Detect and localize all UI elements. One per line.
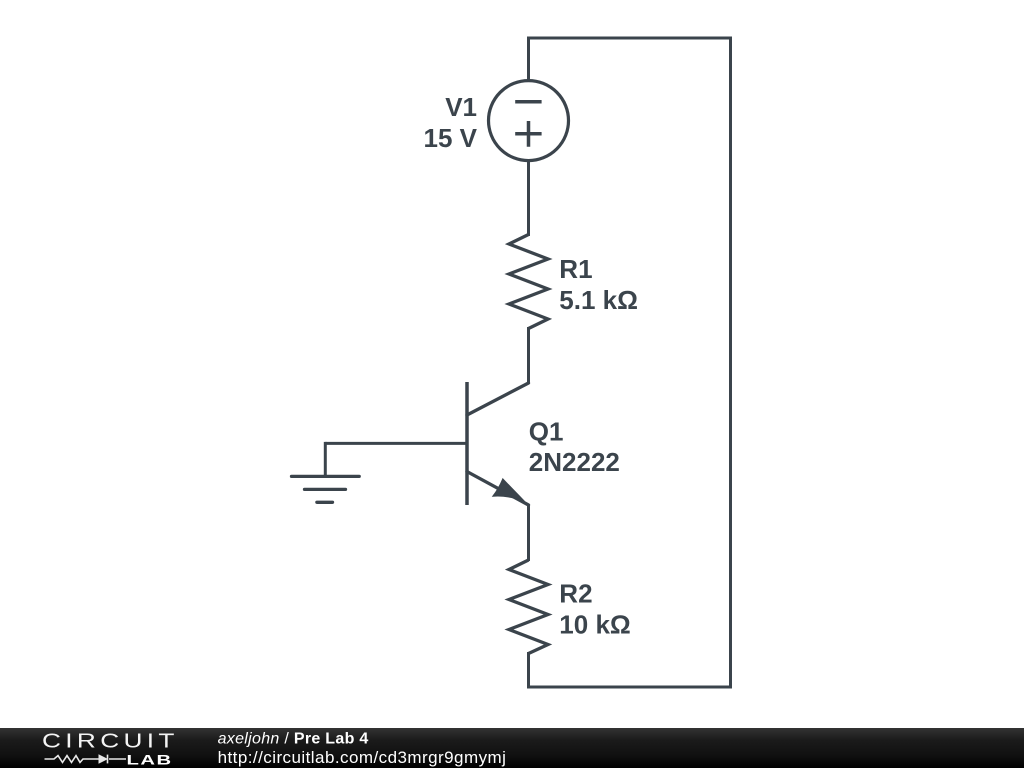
svg-text:Q1: Q1 — [529, 417, 564, 447]
transistor Q1 — [467, 382, 529, 505]
Q1 emitter arrowhead — [493, 479, 525, 502]
wire right vertical — [729, 37, 732, 689]
svg-text:R2: R2 — [559, 579, 592, 609]
resistor R1 — [509, 235, 548, 329]
wire top horizontal — [527, 37, 731, 40]
wire top vertical from loop to V1 top — [527, 38, 530, 81]
svg-text:http://circuitlab.com/cd3mrgr9: http://circuitlab.com/cd3mrgr9gmymj — [218, 748, 507, 767]
voltage source V1 — [489, 81, 569, 161]
svg-text:LAB: LAB — [127, 752, 173, 768]
resistor R2 — [509, 560, 548, 654]
ground — [292, 476, 360, 502]
svg-text:V1: V1 — [445, 92, 477, 122]
svg-text:axeljohn / Pre Lab 4: axeljohn / Pre Lab 4 — [218, 731, 369, 748]
wire R1 bottom to Q1 collector — [527, 327, 530, 383]
svg-text:2N2222: 2N2222 — [529, 447, 620, 477]
wire R2 bottom to loop — [527, 652, 530, 689]
wire Q1 emitter to R2 — [527, 505, 530, 561]
svg-text:15 V: 15 V — [424, 123, 478, 153]
wire ground stem — [324, 442, 327, 477]
CircuitLab logo diode triangle — [99, 754, 109, 764]
svg-text:10 kΩ: 10 kΩ — [559, 610, 630, 640]
svg-text:5.1 kΩ: 5.1 kΩ — [559, 285, 638, 315]
svg-text:R1: R1 — [559, 254, 592, 284]
wire bottom horizontal — [527, 686, 732, 689]
wire V1 bottom to R1 — [527, 161, 530, 237]
footer bar — [0, 728, 1024, 768]
wire Q1 base to ground — [325, 442, 467, 445]
svg-text:CIRCUIT: CIRCUIT — [42, 729, 179, 752]
CircuitLab logo resistor-diode line — [45, 755, 127, 764]
